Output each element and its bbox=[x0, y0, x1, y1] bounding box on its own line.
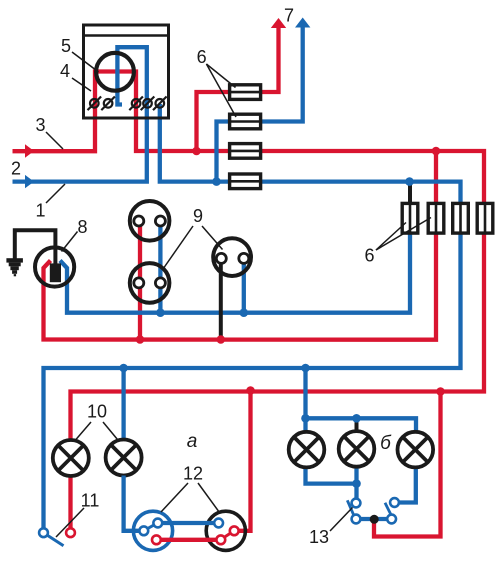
meter dial 5 bbox=[96, 53, 134, 91]
lamp room b #3 bbox=[398, 432, 434, 468]
lamp room b #2 bbox=[339, 431, 375, 467]
switch 12 left circle (blue) bbox=[133, 511, 172, 550]
pointer line label 5 bbox=[72, 52, 99, 72]
svg-text:8: 8 bbox=[77, 217, 87, 237]
arrow input red (3) bbox=[25, 144, 34, 157]
meter terminal 2 bbox=[101, 97, 115, 111]
socket 9 B bbox=[130, 263, 170, 303]
svg-text:6: 6 bbox=[364, 246, 374, 266]
wire black socket C left hole down to red line bbox=[219, 258, 223, 339]
socket 8 circle bbox=[35, 247, 74, 286]
svg-text:2: 2 bbox=[11, 159, 21, 179]
wire red branch down to switch 13 feed bbox=[374, 392, 441, 537]
meter terminal 5 bbox=[153, 97, 167, 111]
node red room line to switch 13 bbox=[436, 387, 445, 396]
switch 12 right circle (black) bbox=[206, 511, 245, 550]
meter terminal 3 bbox=[129, 97, 143, 111]
lever switch 13 right bbox=[385, 503, 392, 517]
node red socket line x140 bbox=[136, 335, 145, 344]
fuse 6 (horizontal #3) bbox=[230, 144, 261, 159]
arrow output blue (7) bbox=[295, 18, 310, 28]
node red socket line x221 bbox=[217, 335, 226, 344]
wire blue down to switch 13 contact bbox=[354, 484, 358, 501]
wire blue branch to fuse F2 and up arrow 7 bbox=[217, 26, 303, 182]
wire blue switch13 right contact to lamp3 bottom bbox=[395, 468, 416, 503]
fuse 6 (vertical #4) bbox=[477, 203, 493, 233]
fuse 6 (vertical #1) bbox=[402, 203, 418, 233]
wire red lamp1 bottom to switch 11 bbox=[68, 476, 72, 529]
meter box 4 bbox=[84, 25, 169, 118]
svg-text:1: 1 bbox=[35, 201, 45, 221]
wire black stub above right fuse 1 bbox=[408, 183, 412, 204]
svg-text:а: а bbox=[187, 431, 198, 452]
wire blue socket C right hole down bbox=[242, 258, 246, 312]
fuse 6 (horizontal #1) bbox=[230, 85, 261, 100]
node red room line to switch 12 bbox=[246, 386, 255, 395]
pointer line label 4 bbox=[72, 78, 91, 91]
fuse 6 (horizontal #2) bbox=[230, 114, 261, 129]
socket 9 A holes bbox=[134, 216, 144, 226]
wire red traveller between switches 12 bbox=[156, 538, 220, 542]
wire blue lamps b top rail to lamp3 bbox=[306, 418, 417, 432]
pointer line label 3 bbox=[46, 132, 63, 149]
svg-text:б: б bbox=[380, 433, 392, 454]
socket 8 ground pin bbox=[50, 263, 61, 282]
lever switch 11 (blue) bbox=[45, 534, 64, 546]
node blue at vertical fuse1 bbox=[405, 177, 414, 186]
contacts switch 12 right bbox=[214, 519, 223, 528]
socket 9 C holes bbox=[216, 253, 226, 263]
node blue lamps b bottom bbox=[352, 479, 361, 488]
node red at fuse1 branch bbox=[192, 147, 201, 156]
contacts switch 13 bbox=[352, 499, 361, 508]
node blue socket line x160 bbox=[156, 308, 165, 317]
svg-text:13: 13 bbox=[309, 527, 329, 547]
socket 9 C bbox=[213, 238, 251, 276]
pointer lines label 10 bbox=[76, 422, 92, 440]
contacts switch 12 left bbox=[139, 526, 148, 535]
wire black stub lamp2b top bbox=[355, 418, 359, 431]
svg-text:11: 11 bbox=[81, 491, 100, 511]
lamp 10 #2 room a bbox=[106, 440, 142, 476]
svg-text:12: 12 bbox=[183, 464, 203, 484]
node switch 13 common (black) bbox=[370, 515, 379, 524]
node blue at fuse2 branch bbox=[212, 177, 221, 186]
meter terminal 4 bbox=[141, 97, 155, 111]
wire blue lamps b bottoms bbox=[306, 468, 357, 484]
arrow input blue (2) bbox=[25, 175, 34, 188]
wire red socket column (sockets 9 A,B) bbox=[138, 221, 142, 340]
wire blue feed lamps room b bbox=[303, 368, 307, 432]
arrow output red (7) bbox=[271, 18, 286, 28]
pointer line label 11 bbox=[56, 508, 84, 537]
wire red branch down to two-way switch feed (12) bbox=[236, 391, 251, 531]
fuse 6 (horizontal #4) bbox=[230, 174, 261, 189]
meter box inner line bbox=[84, 34, 169, 37]
wire blue traveller between switches 12 bbox=[158, 521, 219, 525]
contact switch 11 red bbox=[66, 528, 75, 537]
lamp 10 #1 room a bbox=[53, 440, 89, 476]
svg-text:3: 3 bbox=[35, 115, 45, 135]
pointer line label 13 bbox=[330, 508, 353, 532]
svg-text:7: 7 bbox=[284, 6, 294, 26]
pointer lines label 6 top bbox=[206, 64, 235, 88]
pointer lines label 6 right bbox=[376, 223, 406, 251]
svg-text:4: 4 bbox=[60, 61, 70, 81]
pointer lines label 12 bbox=[161, 483, 188, 512]
lamp room b #1 bbox=[289, 432, 325, 468]
svg-text:6: 6 bbox=[197, 47, 207, 67]
node blue socket line x244 bbox=[240, 308, 249, 317]
wire red from bus through vertical fuse to socket line and to socket 8 bbox=[44, 151, 437, 340]
node red at vertical fuse2 bbox=[432, 147, 441, 156]
wire blue lamp2a bottom into switch 12 left bbox=[124, 476, 144, 531]
wire black ground lead from socket 8 pin bbox=[15, 230, 56, 265]
pointer line label 8 bbox=[62, 232, 78, 252]
wire blue lamp2 room a top feed bbox=[121, 368, 125, 440]
wire blue lamp2b bottom stub bbox=[354, 467, 358, 484]
svg-text:10: 10 bbox=[87, 402, 107, 422]
socket 9 B holes bbox=[134, 278, 144, 288]
pointer line label 1 bbox=[46, 184, 65, 203]
wire red branch to fuse F1 and up arrow 7 bbox=[197, 26, 279, 151]
wire N input blue into meter bbox=[13, 47, 147, 181]
svg-text:5: 5 bbox=[61, 36, 71, 56]
fuse 6 (vertical #2) bbox=[428, 203, 444, 233]
ground symbol bbox=[6, 258, 23, 276]
meter terminal 1 bbox=[88, 97, 102, 111]
lever switch 13 left bbox=[347, 500, 354, 515]
wire L1 phase input: arrow line into meter, through meter, main red bus to right and down to room line bbox=[13, 72, 485, 441]
wire blue main bus from meter out, right side down to room line, down to switch 11 bbox=[44, 104, 461, 529]
pointer lines label 9 bbox=[163, 226, 193, 269]
node blue lamps b rail bbox=[301, 414, 310, 423]
contact switch 11 blue bbox=[39, 528, 48, 537]
node blue room line lamp2a bbox=[119, 364, 128, 373]
node blue lamps b rail lamp2 bbox=[352, 414, 361, 423]
lever switch 12 right (red) bbox=[222, 531, 233, 539]
socket 9 A bbox=[130, 201, 170, 241]
node blue room line lamps b bbox=[301, 364, 310, 373]
wire blue below vertical fuse, socket line, to socket 8 bbox=[60, 233, 410, 313]
lever switch 12 left (blue) bbox=[145, 524, 157, 530]
wire blue switch13 bottom link through common bbox=[356, 517, 392, 521]
svg-text:9: 9 bbox=[193, 206, 203, 226]
fuse 6 (vertical #3) bbox=[453, 203, 469, 233]
wire blue socket column (sockets 9 A,B) bbox=[158, 221, 162, 313]
